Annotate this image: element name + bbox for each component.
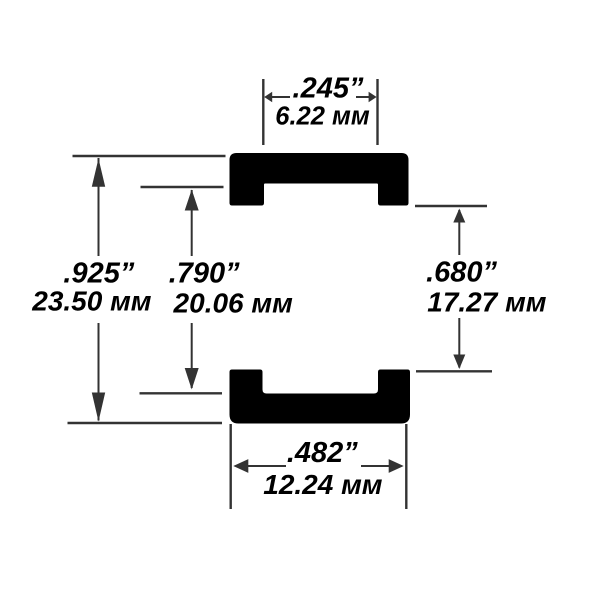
svg-text:.245”: .245” xyxy=(293,73,364,105)
svg-text:.680”: .680” xyxy=(426,257,497,289)
svg-text:.790”: .790” xyxy=(169,258,240,290)
svg-text:12.24 мм: 12.24 мм xyxy=(263,469,383,500)
svg-text:6.22 мм: 6.22 мм xyxy=(275,103,370,131)
svg-text:23.50 мм: 23.50 мм xyxy=(31,286,152,317)
svg-text:17.27 мм: 17.27 мм xyxy=(427,287,547,318)
svg-text:20.06 мм: 20.06 мм xyxy=(173,288,294,319)
svg-text:.482”: .482” xyxy=(287,437,358,469)
